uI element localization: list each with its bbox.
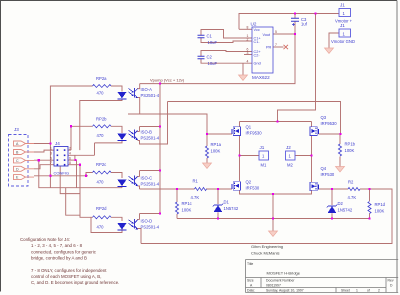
svg-text:PS2501-4: PS2501-4 [141, 182, 160, 187]
svg-text:ISO-D: ISO-D [141, 219, 153, 224]
svg-text:Vcc: Vcc [254, 28, 260, 32]
svg-text:U2: U2 [251, 22, 257, 27]
svg-text:IRF530: IRF530 [321, 172, 335, 177]
svg-text:10uF: 10uF [208, 40, 218, 45]
svg-text:Chuck McManis: Chuck McManis [251, 251, 279, 256]
svg-text:3: 3 [247, 51, 249, 55]
svg-text:of: of [367, 289, 370, 293]
svg-text:Rev: Rev [388, 279, 394, 283]
svg-text:J3: J3 [14, 127, 19, 132]
svg-text:J2: J2 [286, 145, 291, 150]
svg-text:470: 470 [97, 225, 105, 230]
svg-text:Size: Size [247, 279, 254, 283]
svg-text:Q2: Q2 [246, 180, 252, 185]
svg-text:RP2b: RP2b [96, 117, 107, 122]
svg-text:IRF9530: IRF9530 [246, 131, 263, 136]
svg-text:R2: R2 [348, 180, 354, 185]
svg-text:M2: M2 [287, 163, 293, 168]
svg-text:Title: Title [247, 262, 253, 266]
svg-text:J1: J1 [340, 3, 345, 8]
svg-text:4.7K: 4.7K [348, 195, 357, 200]
svg-text:7: 7 [50, 161, 52, 165]
svg-text:8: 8 [247, 26, 249, 30]
svg-text:1: 1 [50, 146, 52, 150]
svg-text:D: D [16, 167, 19, 171]
svg-text:Sheet: Sheet [341, 289, 350, 293]
svg-text:1: 1 [356, 289, 358, 293]
svg-text:100K: 100K [345, 148, 355, 153]
svg-text:4: 4 [247, 59, 249, 63]
svg-text:Gnd: Gnd [254, 61, 261, 65]
svg-text:470: 470 [97, 180, 105, 185]
svg-text:10uF: 10uF [208, 61, 218, 66]
svg-text:Q3: Q3 [321, 115, 327, 120]
svg-text:470: 470 [97, 91, 105, 96]
svg-text:5: 5 [50, 156, 52, 160]
svg-text:ISO-C: ISO-C [141, 176, 153, 181]
svg-text:3: 3 [50, 152, 52, 156]
svg-text:2: 2 [378, 289, 380, 293]
svg-text:100K: 100K [211, 149, 221, 154]
svg-text:Vmotor GND: Vmotor GND [331, 39, 355, 44]
svg-text:RP1b: RP1b [345, 142, 356, 147]
svg-text:RP2a: RP2a [96, 76, 107, 81]
svg-text:2: 2 [69, 146, 71, 150]
svg-text:100K: 100K [375, 209, 385, 214]
svg-text:Configuration Note for J4:: Configuration Note for J4: [20, 237, 70, 242]
svg-text:CONFIG: CONFIG [54, 171, 70, 176]
svg-text:100K: 100K [182, 208, 192, 213]
svg-text:control of each MOSFET using A: control of each MOSFET using A, B, [31, 274, 101, 279]
svg-text:4: 4 [69, 152, 71, 156]
svg-text:5: 5 [275, 30, 277, 34]
svg-text:bridge, controlled by A and B: bridge, controlled by A and B [31, 256, 87, 261]
svg-text:J1: J1 [340, 23, 345, 28]
svg-text:Document Number: Document Number [266, 279, 295, 283]
svg-text:R1: R1 [193, 179, 199, 184]
svg-text:Q4: Q4 [321, 166, 327, 171]
svg-text:470: 470 [97, 133, 105, 138]
svg-text:D1: D1 [224, 200, 230, 205]
svg-text:Gihm Engineering: Gihm Engineering [251, 244, 283, 249]
svg-text:IRF9530: IRF9530 [321, 121, 338, 126]
svg-text:PS2501-4: PS2501-4 [141, 93, 160, 98]
svg-text:PR: PR [266, 46, 272, 50]
svg-text:RP2c: RP2c [96, 162, 106, 167]
svg-text:MAX622: MAX622 [252, 75, 270, 80]
svg-text:1N5742: 1N5742 [338, 208, 353, 213]
svg-text:7 - 8 ONLY, configures for ind: 7 - 8 ONLY, configures for independent [31, 268, 107, 273]
svg-text:connected, configures for gene: connected, configures for generic [31, 249, 97, 254]
svg-text:1uf: 1uf [301, 22, 308, 27]
svg-text:IRF530: IRF530 [246, 186, 260, 191]
svg-text:PS2501-4: PS2501-4 [141, 136, 160, 141]
svg-text:C, and D. E becomes input grou: C, and D. E becomes input ground referen… [31, 280, 119, 285]
svg-text:RP1c: RP1c [182, 201, 192, 206]
svg-text:8: 8 [69, 161, 71, 165]
svg-text:Date:: Date: [247, 289, 255, 293]
svg-text:Vpump (Vcc + 12v): Vpump (Vcc + 12v) [150, 78, 185, 83]
svg-text:D2: D2 [338, 201, 344, 206]
svg-text:RP2d: RP2d [96, 206, 107, 211]
svg-text:2: 2 [247, 38, 249, 42]
svg-text:J4: J4 [55, 141, 60, 146]
svg-text:C1: C1 [207, 34, 213, 39]
svg-text:C: C [16, 159, 19, 163]
svg-text:1N5742: 1N5742 [224, 206, 239, 211]
svg-text:1 - 2, 3 - 4, 5 - 7, and 6 - 8: 1 - 2, 3 - 4, 5 - 7, and 6 - 8 [31, 243, 83, 248]
svg-text:Q1: Q1 [246, 125, 252, 130]
svg-text:ISO-B: ISO-B [141, 130, 153, 135]
svg-text:ISO-A: ISO-A [141, 87, 153, 92]
svg-text:Vout: Vout [263, 33, 272, 37]
svg-text:4.7K: 4.7K [191, 195, 200, 200]
svg-text:C2: C2 [207, 55, 213, 60]
svg-text:7: 7 [275, 43, 277, 47]
svg-text:C2-: C2- [254, 54, 261, 58]
svg-text:RP1a: RP1a [211, 142, 222, 147]
svg-text:C1-: C1- [254, 40, 261, 44]
svg-text:6: 6 [69, 156, 71, 160]
svg-text:J1: J1 [260, 145, 265, 150]
svg-text:Sunday, August 10, 1997: Sunday, August 10, 1997 [266, 289, 304, 293]
svg-text:RP1d: RP1d [375, 202, 386, 207]
svg-text:M1: M1 [261, 163, 267, 168]
svg-text:MOSFET H-Bridge: MOSFET H-Bridge [267, 271, 301, 276]
svg-text:08011997: 08011997 [266, 284, 281, 288]
svg-text:PS2501-4: PS2501-4 [141, 225, 160, 230]
